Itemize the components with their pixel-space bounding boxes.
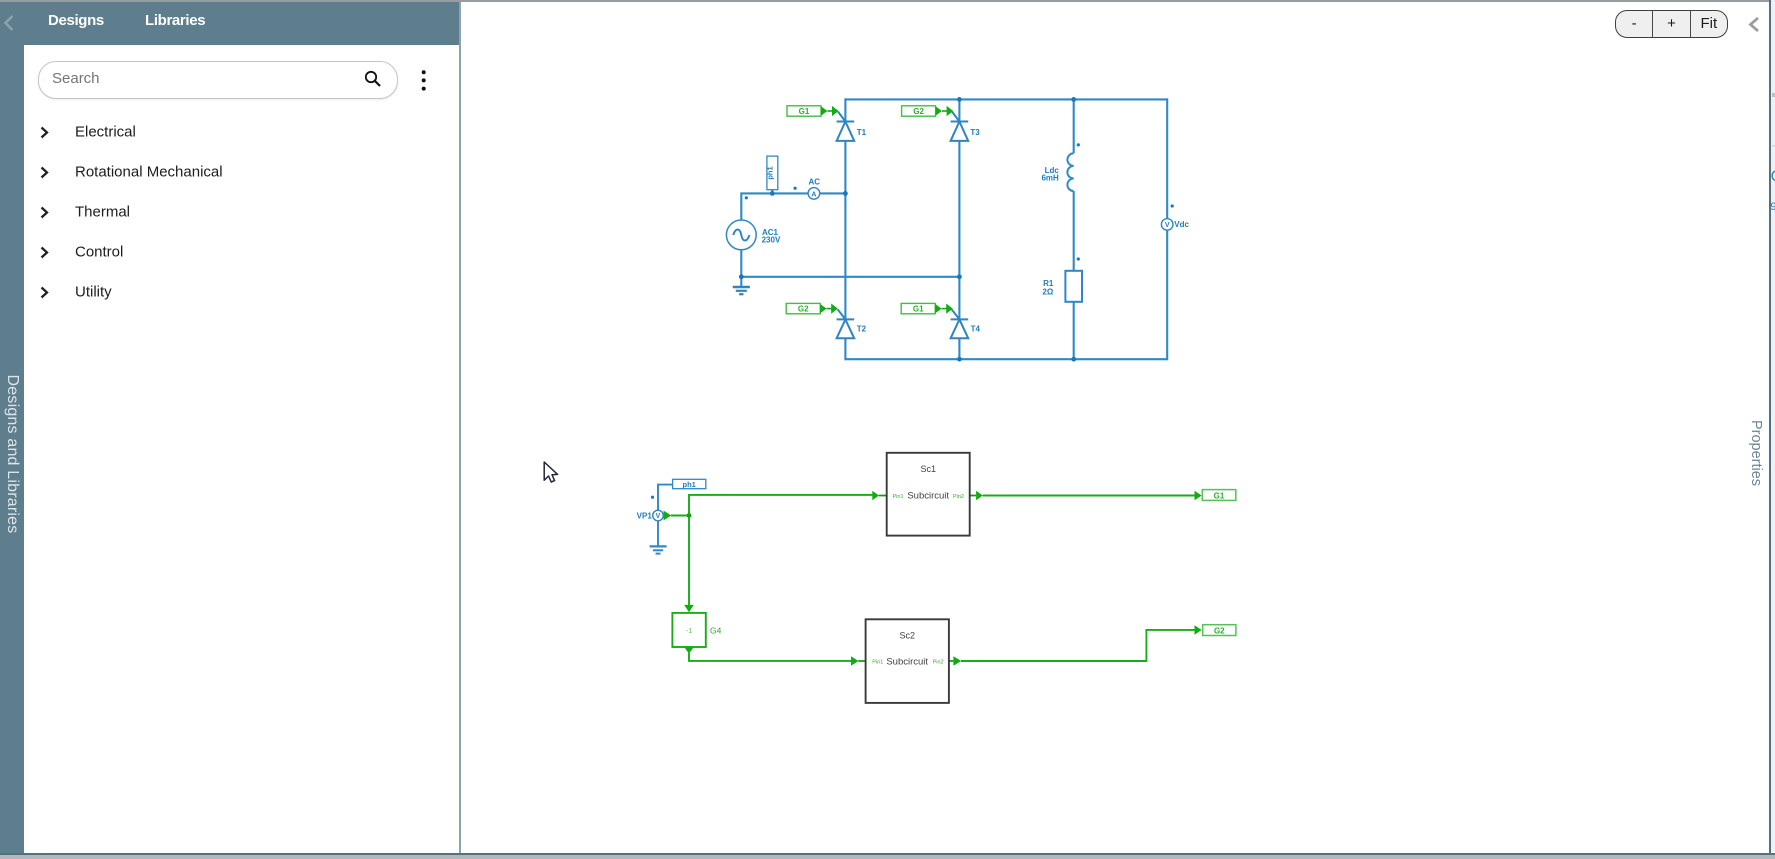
svg-text:T1: T1 — [857, 128, 867, 137]
svg-text:6mH: 6mH — [1041, 174, 1059, 183]
svg-text:T2: T2 — [857, 325, 867, 334]
svg-text:Sc2: Sc2 — [899, 631, 915, 641]
svg-text:AC: AC — [809, 178, 821, 187]
svg-text:Pin2: Pin2 — [953, 494, 964, 500]
svg-text:Subcircuit: Subcircuit — [886, 656, 928, 667]
svg-text:Vdc: Vdc — [1174, 220, 1189, 229]
svg-text:Sc1: Sc1 — [920, 464, 936, 474]
svg-text:G1: G1 — [799, 107, 810, 116]
svg-text:G2: G2 — [913, 107, 924, 116]
svg-text:Subcircuit: Subcircuit — [907, 491, 949, 502]
svg-text:Pin1: Pin1 — [893, 494, 904, 500]
svg-text:T4: T4 — [971, 325, 981, 334]
svg-text:T3: T3 — [970, 128, 980, 137]
svg-text:Pin1: Pin1 — [872, 660, 883, 666]
svg-text:ph1: ph1 — [765, 166, 774, 179]
svg-text:VP1: VP1 — [637, 512, 653, 521]
svg-text:G1: G1 — [1214, 492, 1225, 501]
svg-text:230V: 230V — [762, 236, 781, 245]
svg-text:Pin2: Pin2 — [933, 660, 944, 666]
svg-text:V: V — [1165, 222, 1170, 229]
svg-text:G2: G2 — [798, 305, 809, 314]
svg-text:-1: -1 — [686, 628, 692, 635]
svg-text:G1: G1 — [913, 305, 924, 314]
svg-text:2Ω: 2Ω — [1042, 287, 1053, 296]
svg-text:V: V — [656, 513, 661, 520]
svg-text:ph1: ph1 — [683, 480, 696, 489]
svg-text:A: A — [811, 191, 816, 198]
svg-text:G2: G2 — [1214, 627, 1225, 636]
svg-text:9: 9 — [1771, 201, 1775, 213]
svg-text:G4: G4 — [710, 625, 722, 635]
